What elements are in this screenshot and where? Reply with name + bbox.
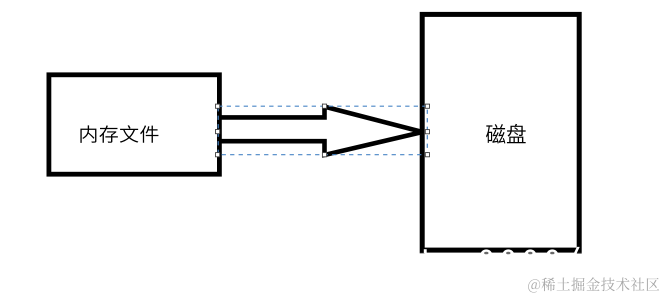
white notch cut-out at disk box bottom-left corner [424, 249, 427, 253]
white digit "0" cut-out 3 on disk bottom border [524, 249, 537, 261]
selection handle top-left [216, 104, 220, 108]
white slash cut-out near disk box bottom-right corner [574, 247, 580, 254]
disk box label: 磁盘 [486, 124, 526, 144]
selection handle top-mid [322, 104, 326, 108]
selection handle mid-left [216, 130, 220, 134]
selection handle mid-right [425, 130, 429, 134]
watermark @稀土掘金技术社区 [528, 277, 659, 292]
memory-file box (内存文件) [49, 75, 220, 174]
black tail below disk box bottom-right corner [577, 252, 582, 255]
white digit "0" cut-out 2 on disk bottom border [502, 249, 515, 261]
white digit "0" cut-out 4 on disk bottom border [546, 249, 559, 261]
memory-file box label: 内存文件 [80, 125, 158, 143]
selection dashed rectangle around arrow [218, 106, 427, 155]
block arrow from memory-file box to disk box (shaft + head outline) [218, 107, 423, 155]
disk box (磁盘) [422, 14, 579, 250]
black tail below disk box bottom-left corner [420, 252, 425, 255]
selection handle bottom-left [216, 153, 220, 157]
selection handle top-right [425, 104, 429, 108]
selection handle bottom-mid [322, 153, 326, 157]
white digit "0" cut-out 1 on disk bottom border [480, 249, 493, 261]
selection handle bottom-right [425, 153, 429, 157]
